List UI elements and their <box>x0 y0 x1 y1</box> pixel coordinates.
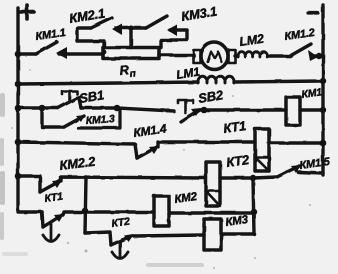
junction left bus row1 <box>15 51 22 58</box>
contact KM1.1 <box>36 42 57 54</box>
junction left bus row5 <box>15 173 22 180</box>
junction staircase row1 <box>102 50 107 55</box>
inductor LM1 <box>198 76 234 83</box>
arrow KM1.4 <box>149 146 159 154</box>
contact KM2.2 <box>40 181 60 192</box>
coil KT1 <box>255 129 269 171</box>
wire <box>234 81 323 82</box>
contact KM1.4 <box>137 147 157 158</box>
delay symbol KT2 <box>112 242 128 259</box>
arrow SB2 <box>191 108 201 116</box>
svg-text:п: п <box>129 68 136 80</box>
wire tap to resistor <box>129 28 132 48</box>
arrow KM1.5 <box>291 165 301 173</box>
junction SB1 branch <box>39 105 46 112</box>
wire row5 <box>18 176 40 192</box>
wire row1 left <box>18 52 36 55</box>
wire vertical right center <box>221 178 254 234</box>
junction node after KT2 coil <box>250 175 256 181</box>
junction left bus row4 <box>15 139 22 146</box>
wire <box>169 211 254 214</box>
pushbutton SB2 <box>181 110 200 122</box>
junction left bus row2 <box>15 81 22 88</box>
arrow KM2.2 <box>52 180 62 188</box>
wire <box>59 52 103 55</box>
resistor Rp <box>103 48 159 59</box>
minus terminal <box>308 11 318 14</box>
junction right bus KM1 coil <box>320 107 326 113</box>
wire staircase left <box>77 28 104 48</box>
svg-text:КТ1: КТ1 <box>222 118 247 136</box>
arrow KM1.2 <box>308 50 318 61</box>
contact KM3.1 <box>146 16 167 28</box>
junction right bus KT1 coil <box>320 140 327 147</box>
arrow KM1.1 <box>56 47 67 59</box>
junction KM1.3 rejoin <box>114 105 121 112</box>
arrow KM3.1 <box>167 25 177 37</box>
junction node row6 left <box>82 208 89 215</box>
wire <box>117 108 174 111</box>
coil KM1 <box>286 97 300 125</box>
coil KT2 <box>206 162 220 206</box>
junction right bus row2 <box>320 78 326 84</box>
junction after SB2 <box>201 107 208 114</box>
svg-text:КМ1.3: КМ1.3 <box>85 113 115 127</box>
svg-text:КТ1: КТ1 <box>44 190 64 204</box>
coil KM2 <box>154 196 169 226</box>
wire <box>235 54 238 57</box>
plus terminal <box>20 5 34 19</box>
coil KM3 <box>204 219 221 250</box>
wire row3 <box>18 106 58 109</box>
arrow KT1 contact <box>54 214 64 222</box>
junction resistor tap <box>128 25 133 30</box>
delay symbol KT1 <box>43 224 59 242</box>
left bus <box>18 8 42 212</box>
arrow KT2 contact <box>124 234 134 242</box>
wire row7 <box>85 232 111 245</box>
pushbutton SB1 <box>58 97 79 108</box>
arrow KM1.3 <box>76 115 85 122</box>
contact KM1.2 <box>290 44 311 56</box>
wire <box>267 54 290 57</box>
wire <box>300 108 323 111</box>
wire staircase right <box>161 30 187 48</box>
inductor LM2 <box>238 52 267 57</box>
contact KM1.5 <box>253 177 277 178</box>
contact KT2 (time delay) <box>111 236 131 245</box>
contact KM2.1 <box>91 18 112 28</box>
contact KT1 (time delay) <box>43 215 62 227</box>
contact KM1.3 branch <box>42 108 64 127</box>
wire row6 <box>42 212 43 227</box>
wire <box>201 108 286 111</box>
wire <box>81 106 117 109</box>
wire <box>220 176 253 179</box>
motor M <box>201 43 228 70</box>
junction right bus row1 <box>316 53 322 59</box>
arrow KM2.1 <box>112 24 122 36</box>
arrowheads <box>52 24 318 243</box>
right bus <box>321 5 324 175</box>
wire row2 <box>18 82 198 84</box>
junction left bus row3 <box>15 105 22 112</box>
wire tee down <box>85 177 86 233</box>
junction node row6 right <box>251 209 257 215</box>
wire <box>269 141 323 144</box>
wire <box>116 26 146 29</box>
svg-text:КТ2: КТ2 <box>111 215 131 229</box>
wire <box>159 53 194 56</box>
box KM1.3 <box>78 110 120 128</box>
wire row4 <box>18 142 137 158</box>
